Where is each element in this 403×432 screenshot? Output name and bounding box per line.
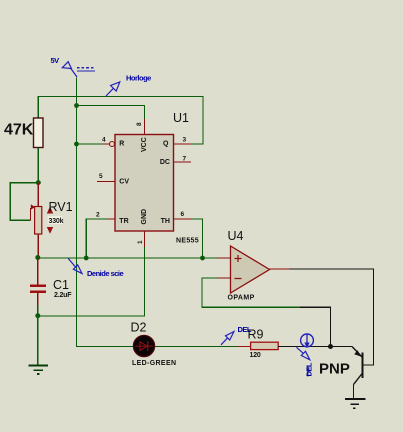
pin 3 Q stub <box>174 143 192 145</box>
svg-text:120: 120 <box>250 352 261 359</box>
wire 47K to RV1 <box>37 148 39 183</box>
svg-text:8: 8 <box>136 122 143 126</box>
svg-text:GND: GND <box>141 209 148 225</box>
pin 2 stub <box>107 218 115 220</box>
junction 47K/RV1/wiper <box>36 180 41 185</box>
pin 8 VCC stub <box>144 119 146 135</box>
svg-text:C1: C1 <box>53 278 69 292</box>
svg-text:D2: D2 <box>131 321 147 335</box>
svg-text:LED-GREEN: LED-GREEN <box>132 360 176 367</box>
svg-text:Denide scie: Denide scie <box>87 269 124 278</box>
wire sawtooth line <box>38 257 217 259</box>
svg-text:DEL: DEL <box>305 362 314 376</box>
svg-text:5: 5 <box>99 173 103 180</box>
resistor R9 <box>237 328 278 359</box>
probe Denide scie <box>68 259 123 279</box>
svg-text:330k: 330k <box>49 218 64 225</box>
potentiometer RV1 <box>31 183 73 258</box>
junction feedback/emitter <box>328 344 333 349</box>
pin 4 R stub with bubble <box>103 143 110 145</box>
wire LED to R9 <box>156 346 237 348</box>
wire pin1 GND net <box>38 247 145 316</box>
svg-text:R: R <box>119 140 124 147</box>
wire VCC branch <box>77 106 145 120</box>
transistor PNP <box>352 347 363 400</box>
wire feedback <box>202 278 300 307</box>
junction C1/gnd/pin1 <box>35 313 40 318</box>
svg-text:4: 4 <box>102 137 106 144</box>
power terminal 5V <box>77 68 95 71</box>
junction RV1/C1/sawtooth <box>35 255 40 260</box>
pin 6 stub <box>174 218 192 220</box>
probe Horloge <box>106 74 151 97</box>
junction TR riser <box>84 256 89 261</box>
wire R9 to junction (through current probe) <box>278 346 330 348</box>
svg-text:RV1: RV1 <box>49 200 73 214</box>
svg-text:1: 1 <box>137 240 144 244</box>
svg-text:OPAMP: OPAMP <box>228 295 255 302</box>
svg-text:PNP: PNP <box>319 361 350 378</box>
svg-text:5V: 5V <box>51 56 60 65</box>
wire wiper loop <box>10 183 38 221</box>
wire TR (pin2) <box>86 219 107 258</box>
svg-text:Q: Q <box>163 140 169 147</box>
junction 5V/VCC <box>74 103 79 108</box>
svg-text:R9: R9 <box>248 328 264 342</box>
resistor 47K <box>34 118 44 148</box>
svg-text:47K: 47K <box>4 122 34 139</box>
svg-text:3: 3 <box>183 137 187 144</box>
svg-text:CV: CV <box>119 179 129 186</box>
IC U1 NE555 <box>115 111 199 245</box>
svg-text:VCC: VCC <box>141 137 148 152</box>
svg-text:6: 6 <box>181 211 185 218</box>
probe DEL <box>221 325 252 345</box>
pin out stub <box>270 268 290 270</box>
wire 5V riser down to LED <box>77 78 135 347</box>
pin 7 DC stub <box>174 161 192 163</box>
junction 5V/reset <box>74 142 79 147</box>
svg-text:TH: TH <box>161 218 170 225</box>
wire output rail (pin3 net) <box>38 97 203 145</box>
wire junction to emitter <box>331 346 353 348</box>
junction TH riser <box>200 256 205 261</box>
wire reset branch <box>77 143 103 145</box>
svg-text:2.2uF: 2.2uF <box>54 292 72 299</box>
svg-text:2: 2 <box>96 212 100 219</box>
svg-text:U1: U1 <box>173 111 189 125</box>
ground (under transistor) <box>345 399 366 408</box>
pin 5 CV stub <box>97 181 115 183</box>
svg-text:TR: TR <box>119 218 128 225</box>
wire output to base <box>289 269 374 365</box>
svg-text:U4: U4 <box>228 229 244 243</box>
wire TH (pin6) <box>191 219 203 258</box>
LED D2 <box>131 321 177 368</box>
ground (bottom left) <box>29 366 48 375</box>
wire to ground <box>37 316 39 365</box>
current probe <box>297 334 314 377</box>
pin - stub <box>217 277 231 279</box>
op-amp U4 <box>228 229 270 302</box>
svg-text:DC: DC <box>160 159 170 166</box>
pin + stub <box>217 257 231 259</box>
capacitor C1 <box>30 258 72 316</box>
svg-text:Horloge: Horloge <box>126 74 151 83</box>
svg-text:NE555: NE555 <box>176 238 199 245</box>
svg-text:7: 7 <box>183 156 187 163</box>
pin 1 stub <box>144 231 146 247</box>
